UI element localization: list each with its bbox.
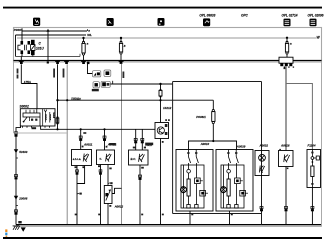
connector icon top C5 xyxy=(284,19,291,27)
relay K3 ground wire xyxy=(139,165,141,225)
svg-text:F1104: F1104 xyxy=(308,144,316,148)
svg-text:u.: u. xyxy=(100,158,103,161)
option border grey right x321.5 xyxy=(321,62,323,227)
splice arrow 1 xyxy=(14,149,18,153)
page bottom border xyxy=(3,237,322,239)
connector pair on A0016 ground xyxy=(285,206,288,211)
terminal x21 xyxy=(19,61,24,64)
svg-text:OPL 02096: OPL 02096 xyxy=(308,13,324,17)
relay K3 feed drop 2 xyxy=(141,129,143,150)
connector pair on K2 feed xyxy=(103,136,106,141)
ground wire from switch (left drop) xyxy=(16,126,21,225)
svg-text:a.t.c.a.: a.t.c.a. xyxy=(73,157,82,161)
terminal x88 (bat refs) xyxy=(87,62,90,65)
inline connector pair 2 xyxy=(15,175,18,180)
pin 8 tick xyxy=(82,146,84,148)
svg-text:100Ax: 100Ax xyxy=(71,97,81,101)
grey line under ground bus xyxy=(14,225,322,227)
wire 30 bus (black, bottom of box) xyxy=(14,60,322,62)
pin tick a on K1 ground xyxy=(77,193,82,195)
inline connector pair 3 xyxy=(15,210,18,215)
pin tick xyxy=(16,157,18,159)
svg-text:WL: WL xyxy=(87,33,92,37)
svg-text:A0016: A0016 xyxy=(280,144,290,148)
ECU box outline xyxy=(173,82,262,225)
svg-text:B.C.: B.C. xyxy=(131,157,137,161)
connector pair on K1 feed xyxy=(79,136,82,141)
inline connector pair 1 xyxy=(15,132,18,137)
pin blob x229.5 above bus xyxy=(231,214,233,216)
fuse small on x57.5 xyxy=(56,116,59,124)
svg-text:A0012: A0012 xyxy=(114,204,124,208)
connector pair on K3 ground xyxy=(139,175,142,180)
pin blob x160.5 above bus xyxy=(162,214,164,216)
relay K3 feed drop 1 xyxy=(135,129,137,150)
pin tick near block xyxy=(284,68,286,70)
wire WL / relay sub-box top xyxy=(16,34,87,36)
tick label on K1 feed xyxy=(83,132,86,134)
svg-text:20006: 20006 xyxy=(18,196,27,200)
pin tick 2 xyxy=(109,205,111,207)
option border grey left x13.5 xyxy=(13,62,15,133)
svg-text:P006/1: P006/1 xyxy=(196,115,206,119)
page top border xyxy=(3,7,322,9)
pin tick a xyxy=(108,182,113,184)
relay K1 ground wire xyxy=(76,166,78,225)
relay K1 feed wire xyxy=(80,129,82,149)
relay K2 ground wire xyxy=(100,165,102,225)
svg-text:A0039: A0039 xyxy=(236,145,246,149)
lamp unit A ground wire xyxy=(189,211,191,225)
icon ref R1C2 xyxy=(104,70,111,76)
connector icon top C6 xyxy=(310,19,317,27)
relay K1 box xyxy=(72,150,92,166)
pin blob x100.5 above bus xyxy=(98,214,100,216)
bat reference icons (elbow from bus) xyxy=(88,64,93,74)
connector pair on K1 ground xyxy=(76,170,79,175)
connector icon top C2 xyxy=(107,18,114,26)
label M/X xyxy=(145,143,153,146)
lamp unit B ground wire xyxy=(229,211,231,225)
ignition switch S0002 xyxy=(20,109,55,128)
option wire grey y133 xyxy=(14,132,68,134)
chassis ground symbol xyxy=(13,226,20,230)
wire elbow to switch xyxy=(21,84,37,109)
sensor F1104 ground wire xyxy=(311,188,313,225)
svg-text:A0011: A0011 xyxy=(83,142,93,146)
label BAT vertical xyxy=(17,69,19,74)
grey vertical wire x67.2 xyxy=(66,64,68,224)
terminal x83.5 xyxy=(81,61,86,64)
terminal x121 xyxy=(119,61,124,64)
svg-text:A0010: A0010 xyxy=(200,142,210,146)
connector pair on A0032 ground xyxy=(260,206,263,211)
page colour marks xyxy=(5,229,7,232)
junction x57.5 on feed xyxy=(56,128,58,130)
grey wire W (in-box horizontal) xyxy=(17,37,316,39)
relay K3 box xyxy=(129,150,149,165)
relay A0016 ground wire xyxy=(285,167,287,225)
lamp unit A box xyxy=(176,150,213,212)
lamp feed header xyxy=(189,141,237,150)
relay sub-box left edge xyxy=(15,35,17,57)
fuse F2 (x121 in box) xyxy=(119,37,122,61)
connector icon top C4 xyxy=(203,18,210,26)
svg-text:P0004: P0004 xyxy=(14,28,23,32)
module ground wire x160.5 xyxy=(160,139,162,225)
pin tick 2 xyxy=(162,141,164,143)
relay sub-box bottom xyxy=(16,56,81,58)
relay K1 pin tick 3x xyxy=(75,166,77,168)
terminal dot x48 xyxy=(47,61,49,63)
icon ref R2C2 xyxy=(101,81,110,87)
label 30a xyxy=(32,127,37,129)
resistor A0012 box xyxy=(104,186,112,204)
fuse box P0004 outline xyxy=(14,28,322,63)
connector pair on F1104 ground xyxy=(311,206,314,211)
wire A0012 to ground xyxy=(107,204,109,225)
wire label x63.3 xyxy=(63,69,65,78)
lamp unit B box xyxy=(216,150,253,212)
connector block X1 xyxy=(279,57,294,67)
pin tick 15 xyxy=(144,147,146,149)
terminal x66.5 xyxy=(64,61,69,64)
icon ref R2C1 xyxy=(93,82,99,88)
wire 100A horizontal xyxy=(58,99,214,101)
junction dot x57.5 xyxy=(56,99,58,101)
splice arrow 2 xyxy=(14,196,18,200)
pin tick 2 xyxy=(16,205,18,207)
wire x57.5 (fused branch) xyxy=(57,64,59,129)
junction dot x67 on 100A line xyxy=(66,99,68,101)
label X0001 xyxy=(109,143,116,145)
fuse P006/1 xyxy=(212,100,215,141)
relay K1 second pin wire xyxy=(77,166,85,184)
pin tick 30 xyxy=(133,147,136,149)
connector icon top C3 xyxy=(158,18,165,26)
junction dot x160.5 xyxy=(159,83,161,85)
svg-text:S0002: S0002 xyxy=(20,105,29,109)
relay K2 feed wire xyxy=(104,129,106,150)
relay K2 box xyxy=(97,150,115,165)
pin blob x190 above bus xyxy=(191,214,193,216)
junction dot feed x104.5 xyxy=(103,128,105,130)
wire with arrow at x48 xyxy=(46,29,49,61)
relay C101U xyxy=(18,28,35,60)
wire from refs to module box xyxy=(111,83,173,85)
relay A0016 box xyxy=(279,149,294,169)
svg-text:A0032: A0032 xyxy=(259,144,269,148)
svg-text:53403: 53403 xyxy=(19,150,27,154)
connector icon top C1 xyxy=(33,18,40,26)
fuse F1 (x83.5 in box) xyxy=(82,37,85,61)
pin tick on wire xyxy=(112,81,114,84)
branch wire to F1104 xyxy=(286,84,312,150)
junction dot on header xyxy=(212,140,214,142)
wire BAT x21 xyxy=(20,64,22,83)
wire label x53.8 xyxy=(53,69,55,78)
label wire code xyxy=(92,89,99,91)
icon ref R1C1 xyxy=(93,71,101,77)
grey vertical wire x121.5 xyxy=(121,64,123,225)
branch wire from grey riser into A0012 xyxy=(112,188,122,193)
label a1 xyxy=(18,221,21,223)
wire from block to A0016 xyxy=(285,66,287,150)
relay A0032 box xyxy=(255,151,269,176)
relay feed wire from switch xyxy=(41,126,155,129)
pin blob x77 above bus xyxy=(75,214,77,216)
relay K2 pin 32 wire xyxy=(107,165,109,186)
connector pair K3 drop1 xyxy=(134,138,137,143)
svg-text:OPL 09633: OPL 09633 xyxy=(199,13,215,17)
fuse F3 (x287 in box) xyxy=(285,37,288,58)
transistor module 14212 xyxy=(155,123,169,139)
svg-text:101U: 101U xyxy=(36,46,44,50)
svg-text:14212: 14212 xyxy=(163,106,172,110)
pin tick 32 xyxy=(109,168,111,170)
pin ticks above 14212 xyxy=(165,119,167,121)
svg-text:OPC: OPC xyxy=(241,14,249,18)
pin tick 3x xyxy=(98,165,100,167)
junction dot feed x80.7 xyxy=(80,128,82,130)
pin tick 31 xyxy=(141,167,144,169)
connector pair K3 drop2 xyxy=(141,138,144,143)
fuse on x160.5 xyxy=(159,84,162,123)
ground bus xyxy=(16,224,322,226)
svg-text:OPL 02714: OPL 02714 xyxy=(282,13,298,17)
terminal x57.5 xyxy=(55,61,60,64)
pin blob x140 above bus xyxy=(141,214,143,216)
pin tick K2 xyxy=(106,146,108,148)
connector pair on K2 ground xyxy=(99,170,102,175)
direction arrow at ground xyxy=(21,227,26,231)
wire label x117.6 xyxy=(123,72,125,79)
wire a (in-box horizontal) xyxy=(22,30,87,32)
sensor F1104 box xyxy=(307,150,321,188)
